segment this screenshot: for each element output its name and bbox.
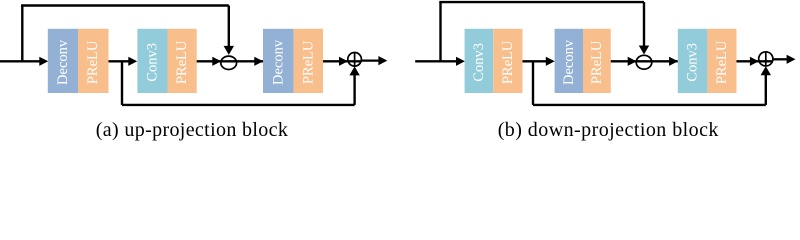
arrowhead into subtract node [212, 57, 221, 66]
wire block1 to block2 (b) [523, 60, 547, 62]
subtract node circle [221, 56, 237, 69]
wire riser top-left [21, 6, 23, 63]
svg-text:(b) down-projection block: (b) down-projection block [498, 119, 719, 141]
wire block1 to block2 [109, 60, 130, 62]
arrowhead into add node [339, 57, 348, 66]
wire bottom skip line (b) [533, 104, 766, 106]
wire block2 to subtract node and through to block3 [197, 60, 263, 62]
block PReLU (layer 1, orange) [78, 29, 109, 93]
svg-text:PReLU: PReLU [500, 40, 516, 84]
arrowhead into Deconv block (b) [546, 57, 555, 66]
wire riser into add node (b) [765, 73, 767, 105]
wire drop to bottom skip line (b) [532, 61, 534, 105]
subtract node circle (b) [636, 55, 652, 69]
arrowhead into Conv3 block [128, 57, 137, 66]
block PReLU (b layer 3, orange) [707, 29, 736, 93]
wire input main line (b) [415, 60, 457, 62]
wire drop to bottom skip line [121, 61, 123, 105]
arrowhead down into subtract node [224, 46, 234, 55]
block Conv3 (layer 2, cyan) [137, 29, 167, 93]
block PReLU (b layer 2, orange) [583, 29, 611, 93]
arrowhead into subtract node (b) [628, 57, 637, 66]
arrowhead up into add node (b) [761, 66, 771, 75]
svg-text:Conv3: Conv3 [685, 43, 701, 82]
block Deconv (layer 3, blue) [263, 29, 294, 93]
wire input main line [0, 60, 40, 62]
block Deconv (layer 1, blue) [48, 29, 78, 93]
block Conv3 (b layer 3, cyan) [678, 29, 708, 93]
svg-text:Conv3: Conv3 [471, 43, 487, 82]
svg-text:Deconv: Deconv [55, 39, 71, 85]
wire top feedback line [21, 4, 229, 6]
wire bottom skip line [122, 104, 355, 106]
add node vertical bar [354, 53, 356, 67]
wire output (b) [773, 58, 788, 60]
add node vertical bar (b) [765, 52, 767, 66]
svg-text:Deconv: Deconv [561, 39, 577, 85]
arrowhead output (b) [787, 55, 796, 64]
block PReLU (layer 3, orange) [294, 29, 323, 93]
wire output (a) [361, 59, 380, 61]
arrowhead into Conv3 block (b) [456, 57, 465, 66]
svg-text:Deconv: Deconv [270, 39, 286, 85]
svg-text:PReLU: PReLU [85, 40, 101, 84]
wire drop into subtract node [228, 6, 230, 49]
svg-text:Conv3: Conv3 [145, 43, 161, 82]
block Conv3 (b layer 1, cyan) [465, 29, 494, 93]
arrowhead up into add node [349, 66, 359, 75]
block Deconv (b layer 2, blue) [555, 29, 583, 93]
wire drop into subtract node (b) [643, 2, 645, 48]
svg-text:(a) up-projection block: (a) up-projection block [96, 119, 288, 141]
arrowhead into Deconv block 3 [254, 57, 263, 66]
arrowhead down into subtract node (b) [639, 46, 649, 55]
arrowhead into add node (b) [750, 57, 759, 66]
arrowhead into Deconv block [39, 57, 48, 66]
svg-text:PReLU: PReLU [714, 40, 730, 84]
wire block3 to add node (b) [737, 60, 773, 62]
svg-text:PReLU: PReLU [300, 40, 316, 84]
svg-text:PReLU: PReLU [174, 40, 190, 84]
arrowhead into Conv3 block 3 (b) [669, 57, 678, 66]
wire block3 to add node [323, 60, 361, 62]
wire top feedback line (b) [439, 1, 644, 3]
block PReLU (layer 2, orange) [168, 29, 197, 93]
wire riser into add node [353, 73, 355, 105]
wire riser top-left (b) [439, 2, 441, 62]
add node circle [348, 53, 362, 67]
block PReLU (b layer 1, orange) [493, 29, 522, 93]
svg-text:PReLU: PReLU [589, 40, 605, 84]
add node circle (b) [759, 52, 773, 66]
wire block2 to subtract node and through to block3 (b) [611, 60, 678, 62]
arrowhead output (a) [378, 56, 387, 65]
